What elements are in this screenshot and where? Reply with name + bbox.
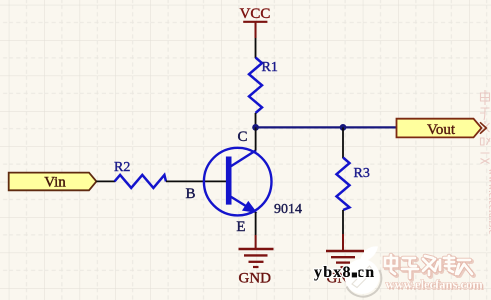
ybx8.cn enlarged dot bbox=[350, 271, 358, 279]
transistor Q1 collector stroke bbox=[231, 150, 257, 166]
wire emitter pin E bbox=[255, 212, 257, 235]
svg-text:Vin: Vin bbox=[44, 175, 66, 191]
svg-text:ybx8.cn: ybx8.cn bbox=[314, 264, 375, 281]
watermark bottom-right: www.elecfans.com bbox=[386, 278, 485, 294]
svg-text:R1: R1 bbox=[262, 60, 278, 75]
svg-text:www.elecfans.com: www.elecfans.com bbox=[386, 278, 484, 292]
svg-text:E: E bbox=[236, 219, 245, 235]
wire VCC to R1 bbox=[255, 38, 257, 58]
wire R2 to base bbox=[166, 180, 227, 182]
svg-text:R2: R2 bbox=[114, 160, 130, 175]
svg-text:9014: 9014 bbox=[274, 202, 302, 217]
power symbol VCC bbox=[240, 6, 271, 38]
ground (left, under emitter) bbox=[239, 235, 274, 267]
transistor Q1 emitter stroke bbox=[231, 197, 256, 213]
wire node to R3 bbox=[342, 127, 344, 158]
resistor R3 bbox=[337, 158, 350, 211]
resistor R1 bbox=[249, 58, 262, 114]
ground (right, under R3) bbox=[326, 234, 364, 267]
wire collector pin C bbox=[255, 127, 257, 150]
port Vout bbox=[397, 119, 487, 138]
ybx8 logo circle bbox=[345, 246, 382, 296]
transistor Q1 9014 (circle) bbox=[204, 148, 272, 216]
svg-text:B: B bbox=[185, 186, 195, 202]
watermark right edge: vertical chinese chars bbox=[480, 90, 490, 164]
svg-text:R3: R3 bbox=[354, 166, 370, 181]
node C junction bbox=[252, 124, 259, 131]
transistor Q1 emitter arrowhead bbox=[243, 202, 256, 213]
svg-text:VCC: VCC bbox=[240, 6, 271, 22]
wire R1 to node C bbox=[255, 113, 257, 128]
watermark bottom-right: 电子发烧友 (stylized strokes) bbox=[385, 255, 474, 280]
resistor R2 bbox=[115, 175, 167, 188]
svg-text:C: C bbox=[237, 129, 247, 145]
svg-text:www.elecfans.c: www.elecfans.c bbox=[486, 168, 491, 235]
port Vin bbox=[9, 173, 97, 191]
wire node C to Vout bbox=[256, 126, 397, 128]
transistor Q1 base bar bbox=[226, 157, 232, 205]
wire R3 to ground bbox=[342, 210, 344, 234]
wire Vin to R2 bbox=[96, 180, 115, 182]
svg-text:GND: GND bbox=[239, 271, 272, 287]
node R3 junction bbox=[340, 124, 347, 131]
svg-text:Vout: Vout bbox=[427, 122, 456, 138]
